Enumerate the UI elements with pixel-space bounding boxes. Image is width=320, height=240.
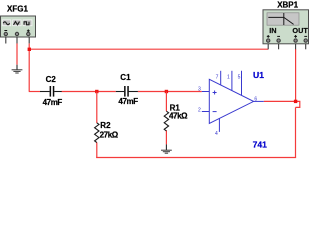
cursor line [283, 13, 285, 25]
svg-text:47mF: 47mF [43, 98, 63, 107]
svg-text:U1: U1 [253, 70, 264, 80]
svg-text:XBP1: XBP1 [277, 1, 298, 10]
wire: R2 bottom lead [96, 142, 98, 158]
resistor R1 [164, 111, 168, 131]
capacitor C1 [116, 86, 138, 97]
wire: C1 to op-amp red segment [138, 91, 202, 93]
svg-text:741: 741 [253, 140, 268, 150]
resistor R2 [95, 123, 99, 143]
ground (XFG1 common) [12, 65, 23, 73]
wire: C2 to C1 red segment [62, 91, 116, 93]
pin stubs [5, 37, 7, 44]
svg-text:4: 4 [215, 131, 218, 137]
wire: bottom feedback horizontal [96, 157, 296, 159]
svg-text:47mF: 47mF [118, 97, 138, 106]
wire: R1 top lead [165, 92, 167, 112]
terminal circles [267, 39, 270, 42]
bode curve [268, 17, 293, 24]
svg-text:IN: IN [269, 26, 276, 35]
wire: XFG1 common to ground [16, 43, 18, 64]
svg-text:C2: C2 [46, 75, 57, 84]
plus sign [213, 92, 217, 94]
OUT- sign [304, 35, 307, 37]
terminal + sign [27, 30, 30, 32]
svg-text:47kΩ: 47kΩ [169, 112, 188, 121]
node: junction C2/R2 [95, 90, 98, 93]
IN+ sign [267, 35, 270, 37]
node: junction C1/R1 [165, 90, 168, 93]
svg-text:6: 6 [254, 96, 257, 102]
wire: right vertical feedback [295, 107, 297, 157]
wire: mid row red segment to C2 [29, 91, 40, 93]
instrument XBP1 [263, 10, 309, 50]
wire: top horizontal to XBP1 IN+ [29, 48, 268, 50]
svg-text:27kΩ: 27kΩ [100, 130, 119, 139]
svg-text:7: 7 [216, 74, 219, 80]
instrument XFG1 [1, 16, 36, 44]
wire: XFG1 output vertical [28, 44, 30, 92]
OUT+ sign [294, 35, 297, 37]
op-amp U1 (741) [202, 71, 264, 132]
wire: R1 bottom lead [165, 130, 167, 144]
svg-text:3: 3 [198, 86, 201, 92]
capacitor C2 [40, 86, 62, 97]
wire: XBP1 OUT+ vertical [295, 49, 297, 101]
wire: jog near output [264, 101, 300, 107]
node: junction output/OUT+ [294, 100, 297, 103]
svg-text:XFG1: XFG1 [7, 4, 28, 13]
pin stubs [267, 44, 269, 50]
svg-text:1: 1 [227, 74, 230, 80]
terminal - sign [4, 30, 7, 32]
function buttons [2, 20, 32, 26]
IN- sign [277, 35, 280, 37]
terminal circles [4, 32, 7, 35]
bode screen [267, 13, 299, 25]
svg-text:2: 2 [198, 107, 201, 113]
svg-text:C1: C1 [120, 73, 131, 82]
svg-text:5: 5 [238, 74, 241, 80]
ground (R1 bottom) [161, 144, 172, 153]
wire: R2 top lead [96, 92, 98, 124]
minus sign [213, 111, 217, 113]
svg-text:R2: R2 [100, 121, 111, 130]
node: junction XFG output / top wire [28, 48, 31, 51]
svg-text:OUT: OUT [292, 26, 308, 35]
